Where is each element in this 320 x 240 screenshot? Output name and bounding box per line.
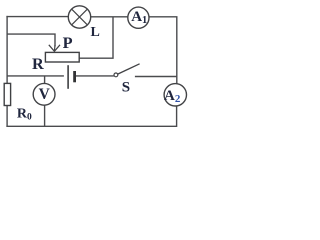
wire top right segment <box>149 16 178 18</box>
wire battery to switch <box>76 75 114 77</box>
switch S blade <box>118 64 140 74</box>
switch S pivot <box>114 73 118 77</box>
wire voltmeter top branch <box>44 76 46 84</box>
ammeter A2 <box>164 84 186 106</box>
voltmeter V <box>33 83 55 105</box>
svg-text:R0: R0 <box>17 106 32 122</box>
wire rheostat right to top node <box>79 17 113 59</box>
svg-text:A2: A2 <box>164 88 181 105</box>
wire top middle segment <box>91 16 128 18</box>
wire battery left feed <box>7 75 64 77</box>
svg-text:L: L <box>91 25 100 40</box>
svg-text:V: V <box>39 86 51 103</box>
ammeter A1 <box>128 7 149 28</box>
wire right vertical upper <box>176 17 178 84</box>
resistor R0 (box) <box>4 83 10 105</box>
wire top left segment <box>6 16 68 18</box>
svg-text:S: S <box>122 80 130 96</box>
wire left vertical lower <box>6 106 8 128</box>
wire switch to right vertical <box>135 76 177 78</box>
lamp L <box>68 6 90 28</box>
svg-text:A1: A1 <box>131 9 147 26</box>
rheostat R (box) <box>45 52 79 62</box>
battery cell long plate <box>67 65 69 89</box>
wire right vertical lower <box>176 106 178 127</box>
wire voltmeter bottom branch <box>44 105 46 126</box>
battery cell short thick plate <box>73 71 76 82</box>
wire left vertical upper <box>6 16 8 84</box>
svg-text:R: R <box>32 54 44 73</box>
rheostat slider arrow P <box>49 45 60 52</box>
wire rheostat slider feed <box>7 34 55 46</box>
svg-text:P: P <box>63 33 73 52</box>
wire bottom <box>6 125 176 127</box>
